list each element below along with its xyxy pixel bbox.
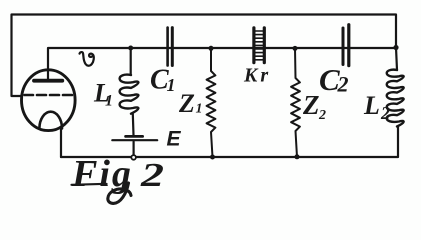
crystal Kr hatching — [256, 31, 263, 60]
wire cathode to bottom rail — [60, 127, 62, 157]
svg-text:L: L — [363, 91, 380, 120]
tube grid (dashed line) — [25, 94, 73, 97]
inductor L1 coil — [120, 75, 139, 114]
node Z1 bottom junction — [210, 155, 215, 160]
svg-text:2: 2 — [318, 108, 326, 123]
svg-text:2: 2 — [380, 103, 390, 123]
svg-text:1: 1 — [105, 93, 113, 110]
capacitor C2 left plate — [342, 28, 345, 65]
crystal Kr left plate — [252, 28, 255, 63]
resistor Z2 body — [291, 48, 300, 157]
node Z2 top junction — [293, 46, 298, 51]
capacitor C1 left plate — [166, 28, 169, 66]
wire battery to bottom rail — [133, 142, 135, 155]
crystal Kr right plate — [263, 28, 266, 63]
svg-text:2: 2 — [337, 72, 349, 97]
caption Fig 2 g-swash loop — [108, 183, 131, 203]
inductor L1 top lead wire — [130, 48, 132, 75]
node battery bottom junction (open) — [131, 155, 136, 160]
wire bottom rail — [61, 127, 398, 158]
tube cathode dome — [39, 112, 62, 129]
svg-text:2: 2 — [140, 157, 164, 194]
svg-text:Z: Z — [178, 89, 195, 118]
node right (grid loop / C2 / L2) junction — [393, 45, 398, 50]
resistor Z1 body — [207, 48, 216, 157]
capacitor C1 right plate — [171, 28, 174, 66]
label V (tube) — [80, 52, 94, 66]
wire outer grid-feedback loop (tube grid to top-right node) — [12, 15, 397, 97]
svg-text:Kr: Kr — [243, 65, 271, 87]
tube plate (anode) bar — [34, 79, 62, 83]
node Z2 bottom junction — [295, 154, 300, 159]
node Z1 top junction — [209, 46, 214, 51]
capacitor C2 right plate — [347, 25, 350, 66]
svg-text:Z: Z — [302, 90, 320, 120]
inductor L2 coil — [387, 70, 404, 127]
wire top rail (plate to right node) — [48, 48, 396, 80]
svg-text:1: 1 — [167, 75, 176, 95]
vacuum tube V envelope — [22, 70, 76, 131]
wire L1 to battery — [132, 114, 135, 135]
caption Fig swash underline — [72, 184, 107, 185]
battery E short plate — [126, 135, 143, 138]
node L1 top junction — [128, 46, 133, 51]
svg-text:1: 1 — [196, 102, 203, 117]
inductor L2 top lead wire — [396, 48, 397, 71]
battery E long plate — [112, 139, 157, 141]
svg-text:E: E — [167, 128, 182, 151]
